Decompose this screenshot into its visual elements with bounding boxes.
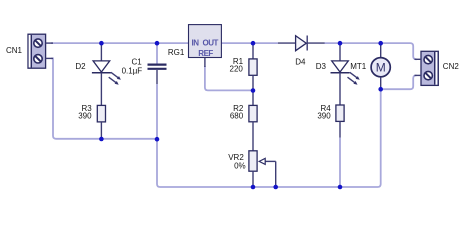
regulator RG1 xyxy=(189,25,222,67)
svg-text:MT1: MT1 xyxy=(350,62,367,71)
svg-text:0%: 0% xyxy=(234,162,246,171)
junction dot C1 top xyxy=(155,41,160,46)
wire D4 cathode to CN2 pin1 xyxy=(324,43,417,59)
svg-text:D3: D3 xyxy=(316,62,327,71)
svg-text:CN2: CN2 xyxy=(443,62,460,71)
svg-text:OUT: OUT xyxy=(203,39,219,48)
motor MT1 xyxy=(371,43,390,89)
svg-text:D2: D2 xyxy=(75,62,86,71)
connector CN2 xyxy=(415,51,439,85)
wire CN1 pin2 down-left branch to middle rail xyxy=(51,58,157,138)
wire bottom ground rail xyxy=(157,89,381,187)
potentiometer VR2 xyxy=(249,151,276,187)
junction dot motor top xyxy=(378,41,383,46)
svg-text:REF: REF xyxy=(198,49,213,58)
svg-text:IN: IN xyxy=(192,39,200,48)
junction dot VR2 bottom xyxy=(251,185,256,190)
junction dot D2 top xyxy=(99,41,104,46)
svg-text:390: 390 xyxy=(78,112,92,121)
wire RG1 REF to R1-R2 node xyxy=(205,66,253,90)
svg-text:D4: D4 xyxy=(295,58,306,67)
junction dot D3 top xyxy=(338,41,343,46)
junction dot C1 bottom xyxy=(155,137,160,142)
LED D3 xyxy=(331,43,360,105)
resistor R2 xyxy=(249,91,257,151)
svg-text:CN1: CN1 xyxy=(6,46,23,55)
connector CN1 xyxy=(28,34,53,68)
junction dot R1 top xyxy=(251,41,256,46)
wire top rail left (CN1 pin1 to RG1 IN) xyxy=(51,42,189,44)
svg-text:220: 220 xyxy=(230,65,244,74)
resistor R1 xyxy=(249,43,257,90)
LED D2 xyxy=(92,43,121,105)
wire motor bottom to CN2 pin2 xyxy=(381,75,417,89)
resistor R3 xyxy=(97,105,105,139)
capacitor C1 xyxy=(148,43,167,139)
junction dot motor bottom xyxy=(378,87,383,92)
junction dot R3 bottom xyxy=(99,137,104,142)
svg-text:VR2: VR2 xyxy=(228,153,244,162)
wire top rail right (RG1 OUT to D4) xyxy=(221,42,278,44)
svg-text:0.1µF: 0.1µF xyxy=(122,67,143,76)
diode D4 xyxy=(278,36,325,51)
junction dot R1-R2 node xyxy=(251,88,256,93)
svg-text:C1: C1 xyxy=(131,57,142,66)
junction dot VR2 wiper xyxy=(273,185,278,190)
resistor R4 xyxy=(336,105,344,187)
svg-text:M: M xyxy=(376,60,386,74)
svg-text:RG1: RG1 xyxy=(168,48,185,57)
svg-text:390: 390 xyxy=(317,111,331,120)
junction dot R4 bottom xyxy=(338,185,343,190)
svg-text:680: 680 xyxy=(230,112,244,121)
